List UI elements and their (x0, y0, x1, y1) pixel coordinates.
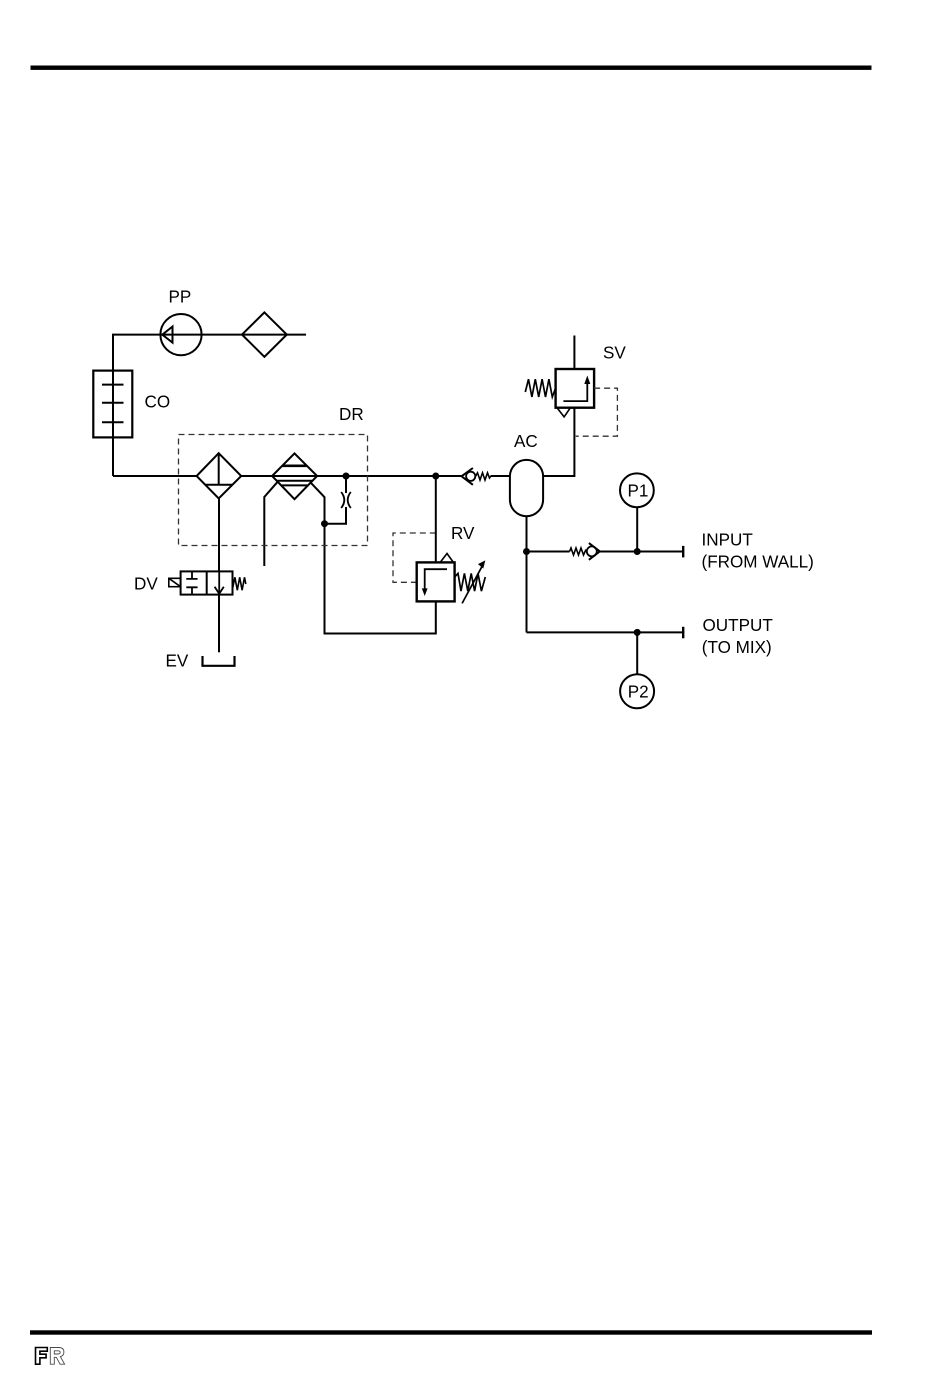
DV divider (206, 571, 208, 594)
OUTPUT line (527, 631, 684, 633)
svg-text:(TO MIX): (TO MIX) (702, 638, 772, 657)
svg-text:P2: P2 (628, 682, 649, 701)
svg-text:AC: AC (514, 432, 538, 451)
DV to EV wire (218, 595, 220, 653)
dryer drain right (311, 482, 325, 523)
svg-text:EV: EV (166, 652, 189, 671)
compressor CO box (93, 371, 132, 438)
svg-text:(FROM WALL): (FROM WALL) (702, 553, 814, 572)
CV1 ball (466, 472, 475, 481)
AC to SV wire (543, 408, 574, 476)
INPUT line right (600, 551, 683, 553)
AC bottom wire (526, 516, 528, 632)
dryer chord low (282, 484, 308, 486)
EV exhaust bracket (203, 656, 235, 666)
RV top vent triangle (440, 554, 453, 563)
junction A (343, 473, 350, 480)
dryer chord top (283, 464, 307, 467)
svg-text:SV: SV (603, 344, 626, 363)
AC accumulator (510, 460, 543, 516)
junction P2 (634, 629, 641, 636)
RV box (417, 562, 455, 601)
junction orifice/drain (321, 520, 328, 527)
bottom rule (30, 1330, 872, 1334)
DV closed symbol top (186, 571, 197, 579)
junction RV takeoff (432, 473, 439, 480)
svg-text:DV: DV (134, 574, 158, 593)
SV dashed pilot (576, 388, 618, 436)
filter drain wire to DV (218, 498, 220, 571)
P1 gauge (620, 473, 654, 507)
RV internal arrow (425, 569, 447, 590)
CO tick 3 (102, 421, 124, 423)
SV arrowhead (584, 376, 590, 385)
svg-text:PP: PP (169, 288, 192, 307)
P1 wire (636, 507, 638, 551)
CV1 spring (476, 473, 491, 480)
OUTPUT end tick (682, 627, 684, 639)
INPUT line (527, 551, 570, 553)
svg-text:OUTPUT: OUTPUT (703, 616, 774, 635)
CV2 ball (587, 546, 597, 556)
svg-text:DR: DR (339, 405, 364, 424)
filter diamond with drain (197, 453, 242, 498)
CO tick 1 (102, 384, 124, 386)
SV box (556, 369, 595, 408)
svg-text:RV: RV (451, 524, 475, 543)
RV dashed pilot (393, 533, 436, 582)
dryer chord mid (277, 480, 312, 482)
filter internal chord (205, 484, 232, 486)
SV spring (525, 379, 555, 397)
DV arrow (218, 571, 220, 594)
P2 gauge (620, 674, 654, 708)
SV top wire (573, 336, 575, 370)
CO tick 2 (102, 402, 124, 404)
CV1 seat (462, 468, 473, 485)
DV spring (233, 577, 246, 590)
intake filter diamond (242, 312, 287, 356)
DV valve body (181, 571, 233, 594)
SV bottom vent triangle (557, 408, 570, 417)
orifice branch wire lower + jog (325, 507, 347, 524)
footer logo FR (36, 1348, 65, 1365)
pump PP circle (160, 314, 201, 355)
CV2 spring (570, 548, 587, 555)
RV adjust arrow (462, 564, 483, 604)
dryer drain left (264, 482, 277, 566)
filter internal vertical (218, 453, 220, 485)
pump PP triangle (162, 327, 172, 343)
top rule (31, 66, 872, 70)
main supply line segment 1 (113, 475, 197, 477)
RV top wire (435, 476, 437, 562)
junction AC bottom (523, 548, 530, 555)
RV spring (455, 573, 486, 591)
RV arrowheads (422, 588, 428, 596)
wire: intake vertical + top line (113, 335, 306, 476)
dryer diamond (272, 453, 317, 499)
CV1 to AC wire (491, 475, 510, 477)
svg-text:CO: CO (145, 392, 171, 411)
P2 wire (636, 632, 638, 674)
main supply line segment 2 (through dryer) (241, 475, 461, 477)
orifice branch wire upper (345, 476, 347, 493)
labels (134, 288, 814, 702)
CV2 seat (589, 543, 600, 560)
svg-text:P1: P1 (628, 481, 649, 500)
DV closed symbol bottom (186, 587, 197, 594)
svg-text:INPUT: INPUT (702, 531, 754, 550)
DV solenoid (169, 578, 181, 586)
junction P1 (634, 548, 641, 555)
SV internal arrow (563, 382, 587, 401)
INPUT end tick (682, 546, 684, 558)
DR dashed enclosure (179, 435, 368, 546)
orifice arcs (341, 492, 344, 508)
drain bus to RV (325, 524, 436, 634)
